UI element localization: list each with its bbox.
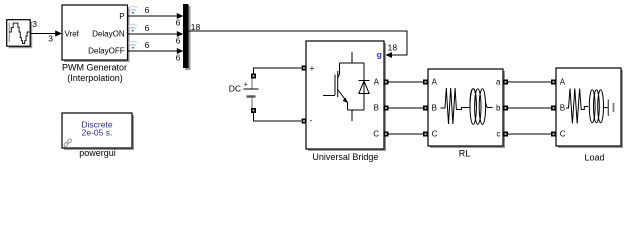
svg-text:6: 6: [176, 18, 181, 28]
svg-text:DelayON: DelayON: [92, 30, 125, 39]
svg-text:B: B: [432, 104, 437, 113]
svg-text:(Interpolation): (Interpolation): [67, 73, 123, 83]
svg-text:+: +: [310, 64, 315, 73]
svg-text:c: c: [497, 130, 501, 139]
svg-text:18: 18: [191, 22, 201, 32]
svg-text:RL: RL: [459, 149, 471, 159]
svg-text:6: 6: [176, 36, 181, 46]
svg-text:Vref: Vref: [65, 30, 80, 39]
svg-text:C: C: [373, 130, 379, 139]
svg-text:B: B: [560, 104, 565, 113]
svg-text:DC: DC: [229, 84, 241, 94]
svg-text:3: 3: [48, 34, 53, 44]
svg-text:6: 6: [176, 53, 181, 63]
svg-text:DelayOFF: DelayOFF: [88, 47, 125, 56]
svg-text:A: A: [560, 78, 566, 87]
svg-text:C: C: [560, 130, 566, 139]
svg-text:P: P: [119, 12, 124, 21]
svg-text:A: A: [432, 78, 438, 87]
svg-text:3: 3: [32, 19, 37, 29]
svg-text:2e-05 s.: 2e-05 s.: [82, 128, 113, 138]
svg-text:powergui: powergui: [79, 148, 116, 158]
svg-text:b: b: [496, 104, 501, 113]
svg-text:18: 18: [388, 43, 398, 53]
svg-text:6: 6: [145, 5, 150, 15]
svg-text:A: A: [374, 78, 380, 87]
svg-text:6: 6: [145, 40, 150, 50]
svg-text:Load: Load: [584, 153, 604, 163]
svg-text:a: a: [496, 78, 501, 87]
svg-text:g: g: [377, 50, 382, 60]
svg-text:Universal Bridge: Universal Bridge: [312, 152, 378, 162]
svg-text:6: 6: [145, 23, 150, 33]
svg-text:+: +: [244, 81, 248, 88]
svg-text:B: B: [374, 104, 379, 113]
svg-text:-: -: [310, 116, 313, 125]
svg-text:PWM Generator: PWM Generator: [62, 63, 127, 73]
svg-text:C: C: [432, 130, 438, 139]
